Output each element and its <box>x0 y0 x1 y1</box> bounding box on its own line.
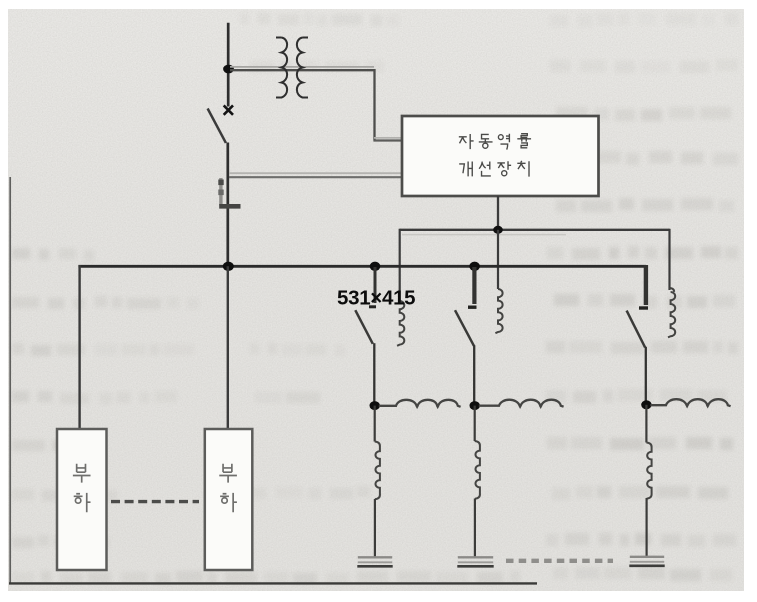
node: PT tap junction on feeder <box>223 65 234 74</box>
dashed: additional banks indication <box>506 559 613 563</box>
discharge coil DC1 <box>397 301 404 346</box>
wire: PT primary tap (horizontal, doubled scan line) <box>230 67 375 70</box>
capacitor bank 1 <box>355 267 460 566</box>
label: load 2 text <box>219 464 237 512</box>
switch S3 contact <box>639 306 648 309</box>
switch S2 blade <box>455 310 474 346</box>
series reactor L2 (horizontal coil) <box>479 400 564 407</box>
load box 1 <box>57 429 107 570</box>
transformer PT (potential transformer windings) <box>276 38 308 98</box>
capacitor bank 3 <box>627 265 731 566</box>
node: bank 1 tee <box>370 401 380 410</box>
node: bus junction at feeder <box>223 262 234 271</box>
wire: drop to load 1 <box>78 265 80 429</box>
ground G1 <box>358 556 392 558</box>
wire: drop to discharge coil 1 <box>399 229 401 301</box>
bus: main distribution bus <box>78 265 646 268</box>
switch DS blade (feeder disconnect) <box>208 109 226 143</box>
wire: drop to discharge coil 3 <box>668 229 670 290</box>
label: load 1 text <box>73 464 91 512</box>
node: bank 3 tee <box>641 400 651 409</box>
wire: drop to load 2 <box>227 266 229 429</box>
current transformer CT on feeder <box>218 178 240 206</box>
discharge coil DC2 <box>495 289 502 333</box>
wire: drop to discharge coil 2 <box>497 230 499 289</box>
node: bus junction at bank 2 <box>469 262 480 271</box>
label: controller text line 2 <box>459 161 529 177</box>
wire: incoming feeder (top vertical) <box>227 23 230 107</box>
controller box U1 (automatic power-factor improvement device) <box>402 116 599 196</box>
capacitor coil C1 (vertical squiggle) <box>375 442 380 500</box>
wire: node to coil <box>474 406 476 441</box>
node: bus junction at bank 1 <box>370 262 381 271</box>
node: bank 2 tee <box>470 401 480 410</box>
wire: coil to ground <box>474 499 476 558</box>
wire: feeder middle segment <box>226 143 229 267</box>
dashed: additional loads indication <box>111 500 199 503</box>
load box 2 <box>205 429 253 570</box>
wire: S2 to node <box>473 345 475 405</box>
switch S1 blade <box>355 310 373 344</box>
svg-text:531×415: 531×415 <box>337 287 415 310</box>
ground G2 <box>458 556 493 558</box>
ground G3 <box>630 556 664 558</box>
switch S1 contact <box>369 305 376 308</box>
label: controller text line 1 <box>459 134 531 150</box>
wire: controller output (down from box) <box>497 196 499 230</box>
series reactor L1 (horizontal coil) <box>379 400 461 407</box>
wire: coil to ground <box>645 498 647 557</box>
switch S2 stub <box>472 267 476 304</box>
discharge coil DC3 <box>668 288 675 337</box>
switch S1 stub <box>374 267 377 303</box>
wire: CT secondary to controller (doubled scan line) <box>229 173 401 177</box>
wire: node to coil <box>374 406 376 442</box>
wire: coil to ground <box>374 499 376 558</box>
wire: control bus (horizontal distribution to banks) <box>400 230 670 235</box>
series reactor L3 (horizontal coil) <box>650 399 730 406</box>
capacitor coil C2 (vertical squiggle) <box>475 441 480 499</box>
node: control bus junction <box>493 226 503 234</box>
wire: bus end corner down <box>644 265 648 305</box>
wire: PT secondary to controller (right, corner down, into box) <box>373 69 401 141</box>
breaker CB (x mark on feeder) <box>224 105 233 114</box>
wire: S3 to node <box>645 347 647 405</box>
switch S3 blade <box>627 311 646 348</box>
wire: node to coil <box>645 405 647 443</box>
wire: S1 to node <box>373 343 375 405</box>
label: scan size watermark 531x415 <box>337 287 415 310</box>
switch S2 contact <box>468 306 477 309</box>
capacitor bank 2 <box>455 267 564 566</box>
capacitor coil C3 (vertical squiggle) <box>646 443 651 499</box>
